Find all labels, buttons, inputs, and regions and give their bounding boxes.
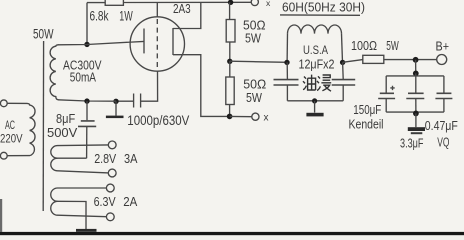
svg-text:5W: 5W — [245, 31, 262, 46]
svg-text:5W: 5W — [246, 90, 263, 105]
capacitor C 3.3uF bottom lead — [415, 99, 417, 114]
terminal circle B+ — [437, 55, 447, 65]
wire choke left lead — [286, 34, 288, 63]
node junction dot mid rail — [227, 59, 232, 64]
ground stub below 12uF bus — [314, 101, 316, 113]
ground bar chassis 3 — [306, 113, 323, 117]
terminal circle 6.3V bottom — [106, 213, 114, 221]
tube 2A3 envelope U1 — [130, 17, 184, 71]
ground bar chassis 1 — [106, 116, 124, 119]
svg-text:x: x — [264, 112, 269, 123]
terminal circle 6.3V top — [106, 184, 114, 192]
transformer HV secondary winding AC300V — [50, 45, 58, 100]
ground stub below output bus — [415, 113, 417, 127]
capacitor C 3.3uF plates — [406, 93, 424, 98]
svg-text:2.8V: 2.8V — [94, 151, 116, 166]
svg-text:6.3V: 6.3V — [94, 194, 116, 209]
transformer primary winding AC220V — [7, 103, 35, 155]
wire top bus left segment — [87, 2, 105, 4]
svg-text:100Ω: 100Ω — [351, 38, 377, 53]
ground bar chassis 2 at 6.3V center tap — [76, 229, 97, 232]
right rail bottom segment — [229, 105, 231, 117]
capacitor C 12uF right plates — [332, 80, 356, 85]
choke L1 coil — [288, 25, 342, 34]
svg-text:50mA: 50mA — [70, 69, 96, 84]
capacitor C 12uF right bottom lead — [342, 85, 344, 101]
svg-text:2A3: 2A3 — [173, 2, 191, 16]
node junction dot at 6.8k / filament wire — [84, 42, 89, 47]
node junction dot bottom rail — [227, 114, 233, 120]
svg-text:5W: 5W — [386, 38, 399, 53]
tube plate bottom lead — [173, 55, 230, 117]
wire B+ tap down — [415, 60, 417, 76]
svg-text:12μFx2: 12μFx2 — [299, 57, 335, 72]
svg-text:6.8k: 6.8k — [90, 9, 109, 24]
wire to x bottom terminal — [230, 115, 252, 117]
svg-text:2A: 2A — [123, 194, 137, 209]
right rail middle segment — [229, 42, 231, 61]
ground bar chassis 4 lower stripe — [411, 132, 423, 134]
node junction dot at ground tap — [113, 99, 118, 104]
capacitor C 0.47uF top lead — [443, 76, 445, 93]
svg-text:1W: 1W — [119, 9, 133, 24]
node junction dot choke input — [284, 60, 289, 65]
terminal circle AC input bottom — [0, 152, 7, 159]
tube plate electrode — [172, 28, 174, 55]
wire 100 ohm to B+ — [384, 59, 437, 61]
ground stub below 1000p — [115, 101, 117, 115]
wire bottom bus to HV winding — [58, 100, 116, 101]
svg-text:500V: 500V — [47, 125, 78, 140]
terminal circle AC input top — [0, 100, 7, 107]
wire top bus from 6.8k to right rail — [123, 1, 251, 3]
right rail upper segment — [229, 2, 231, 19]
svg-text:3.3μF: 3.3μF — [400, 135, 424, 150]
svg-text:U.S.A: U.S.A — [303, 43, 328, 57]
ground bar chassis 4 — [408, 127, 425, 131]
transformer filament winding 6.3V bottom turn — [51, 201, 107, 216]
label oil immersed glyph you — [303, 75, 316, 90]
tube filament electrode — [143, 29, 145, 54]
transformer filament winding 2.8V top turn — [51, 145, 109, 158]
svg-text:0.47μF: 0.47μF — [425, 118, 458, 133]
scan artifact bottom page edge — [0, 232, 464, 235]
wire choke right lead — [342, 34, 343, 63]
capacitor C 12uF right top lead — [342, 62, 345, 79]
resistor R 50 ohm lower box — [226, 77, 234, 105]
wire 1000p to ground node — [116, 100, 134, 102]
terminal circle x bottom — [252, 113, 259, 120]
svg-text:1000p/630V: 1000p/630V — [127, 113, 189, 128]
capacitor C 3.3uF top lead — [415, 73, 417, 92]
capacitor C 150uF polarity plus mark — [390, 86, 394, 90]
node junction dot output cap bus — [413, 71, 419, 77]
capacitor C 150uF plates — [378, 93, 395, 98]
capacitor C 150uF bottom lead — [385, 99, 387, 112]
capacitor C 150uF top lead — [385, 76, 387, 93]
svg-text:60H(50Hz 30H): 60H(50Hz 30H) — [282, 0, 365, 14]
capacitor C 12uF left bottom lead — [286, 85, 288, 101]
node junction dot output ground tap — [413, 111, 419, 117]
resistor R 50 ohm upper box — [226, 20, 235, 43]
wire mid rail to choke input — [230, 61, 287, 62]
wire choke output to 100 ohm — [343, 60, 363, 63]
svg-text:AC: AC — [5, 118, 15, 132]
wire 12uF bottom bus — [287, 100, 343, 102]
tube cathode bottom lead — [141, 71, 158, 101]
svg-text:3A: 3A — [124, 151, 138, 166]
wire 8uF cap top lead — [86, 101, 88, 120]
svg-text:50W: 50W — [33, 26, 54, 41]
terminal circle x top — [251, 0, 258, 6]
svg-text:VQ: VQ — [437, 135, 449, 150]
node junction dot top bus at right rail — [228, 0, 233, 5]
wire 6.3V center tap to ground — [58, 201, 87, 229]
node junction dot at 8uF tap — [84, 98, 89, 103]
node junction dot B+ tap — [413, 57, 419, 63]
node junction dot 12uF ground tap — [312, 98, 317, 103]
wire output cap bottom bus — [386, 111, 444, 113]
right rail lower segment — [229, 61, 231, 77]
choke L1 60H underline — [280, 14, 360, 16]
wire 6.8k drop to node — [86, 3, 88, 44]
node junction dot choke output — [340, 60, 345, 65]
svg-text:B+: B+ — [436, 39, 450, 54]
resistor R 6.8k box — [105, 0, 123, 5]
wire 8uF to 2.8V center tap — [86, 127, 88, 159]
transformer filament winding 2.8V bottom turn — [51, 158, 109, 173]
resistor R 100 ohm box — [363, 55, 384, 63]
terminal circle 2.8V bottom — [108, 169, 116, 177]
transformer filament winding 6.3V top turn — [51, 188, 107, 201]
capacitor C 0.47uF bottom lead — [443, 99, 445, 112]
wire 2.8V center tap — [58, 157, 87, 159]
capacitor C 12uF left plates — [274, 80, 299, 85]
scan artifact left edge streak — [0, 199, 2, 232]
wire transformer HV top to tube filament — [58, 41, 144, 44]
tube grid top lead — [156, 3, 158, 18]
tube plate top lead — [173, 2, 201, 28]
svg-text:150μF: 150μF — [353, 102, 381, 117]
terminal circle 2.8V top — [108, 141, 116, 149]
svg-text:Kendeil: Kendeil — [349, 116, 384, 131]
svg-text:220V: 220V — [0, 131, 23, 145]
capacitor C 8uF/500V plates — [78, 121, 96, 127]
wire output cap top bus — [386, 75, 444, 77]
capacitor C 0.47uF plates — [435, 93, 452, 98]
capacitor C 12uF left top lead — [286, 62, 288, 79]
svg-text:8μF: 8μF — [56, 111, 75, 126]
transformer T1 core boundary line — [42, 41, 44, 211]
tube grid dashed electrode — [156, 19, 158, 67]
capacitor C 1000p/630V plates — [134, 94, 141, 108]
label oil immersed glyph jin — [317, 75, 331, 91]
